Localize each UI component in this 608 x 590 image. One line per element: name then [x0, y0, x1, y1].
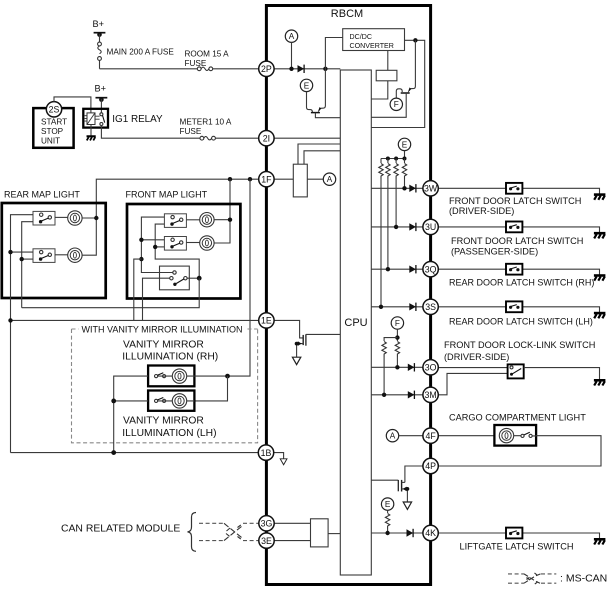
- front switch SW3: [164, 214, 186, 228]
- connector 3S: [423, 299, 438, 314]
- node A circle lower: [386, 430, 398, 442]
- resistor R7: [385, 510, 389, 533]
- MS-CAN label: [560, 573, 607, 585]
- dashed CAN wire 3G: [199, 522, 259, 524]
- ground 3U: [594, 233, 606, 238]
- wire 3U external: [438, 227, 599, 233]
- svg-text:REAR DOOR LATCH SWITCH (RH): REAR DOOR LATCH SWITCH (RH): [449, 278, 594, 288]
- front switch SW4: [164, 237, 186, 251]
- svg-text:4F: 4F: [425, 431, 436, 441]
- wire vanity RH to left chain: [114, 376, 148, 453]
- rear lamp L1: [68, 211, 82, 225]
- svg-text:3O: 3O: [425, 363, 437, 373]
- wire rear sw1 to lamp1: [55, 216, 68, 218]
- connector 1E: [259, 313, 274, 328]
- wire vanity right chain: [194, 374, 230, 401]
- ground arrow mosfet Q4: [403, 502, 411, 509]
- CAN interface box: [311, 519, 329, 547]
- diode 3M: [408, 391, 415, 399]
- ground arrow 1B: [280, 459, 287, 465]
- svg-text:(DRIVER-SIDE): (DRIVER-SIDE): [449, 206, 514, 216]
- rear switch SW1: [33, 211, 55, 225]
- wire 4F external: [438, 435, 494, 437]
- wire door switch right terminal: [187, 276, 202, 281]
- svg-text:FUSE: FUSE: [180, 127, 202, 136]
- svg-text:E: E: [304, 81, 310, 90]
- wire meter1 fuse to 2I: [215, 137, 258, 139]
- svg-text:ROOM 15 A: ROOM 15 A: [185, 50, 230, 59]
- wire room fuse to 2P: [213, 68, 259, 70]
- wire door switch mid terminal to 1E line: [143, 278, 170, 320]
- svg-text:3G: 3G: [261, 519, 273, 529]
- diode 3O: [408, 363, 415, 371]
- svg-text:CONVERTER: CONVERTER: [350, 42, 394, 50]
- svg-text:2S: 2S: [49, 104, 60, 114]
- diode D1 on 2P row: [298, 65, 305, 73]
- relay contact: [100, 113, 105, 126]
- FRONT MAP LIGHT box: [127, 204, 240, 299]
- node E circle lower: [381, 498, 393, 510]
- wire 1F distribution: [96, 177, 258, 218]
- wire vanity feed: [228, 179, 251, 376]
- resistor R2: [386, 159, 390, 270]
- resistor bus wire: [381, 157, 407, 161]
- diode 4K: [407, 529, 414, 537]
- twisted pair symbol: [224, 523, 243, 540]
- svg-text:4P: 4P: [425, 461, 436, 471]
- CARGO COMPARTMENT LIGHT label: [449, 413, 586, 423]
- cargo switch: [521, 432, 532, 437]
- wire 1E row: [8, 318, 258, 322]
- svg-text:1F: 1F: [261, 174, 272, 184]
- FRONT DOOR LATCH SWITCH (PASSENGER-SIDE) label: [451, 236, 583, 257]
- svg-text:CAN RELATED MODULE: CAN RELATED MODULE: [61, 524, 180, 535]
- ground 4K: [594, 539, 606, 544]
- fuse METER1 10 A: [180, 118, 232, 141]
- node F circle upper: [390, 98, 402, 110]
- wire CAN box to CPU: [328, 533, 340, 535]
- svg-text:1E: 1E: [261, 316, 272, 326]
- connector 3M: [423, 387, 438, 402]
- svg-text:1B: 1B: [261, 448, 272, 458]
- connector 3G: [259, 516, 274, 531]
- wire 1B ground stub: [274, 453, 284, 459]
- latch switch 3W: [506, 183, 522, 194]
- cargo light box: [494, 425, 536, 446]
- dashed CAN wire 3E: [199, 540, 259, 542]
- front lamp L4: [200, 236, 214, 250]
- wire 4K external: [438, 533, 599, 539]
- wire 3O external: [438, 367, 507, 369]
- wire 2S to IG1 relay coil: [54, 97, 91, 113]
- svg-text:E: E: [385, 500, 391, 509]
- VANITY MIRROR ILLUMINATION (RH) label: [122, 339, 218, 362]
- resistor R5: [382, 342, 386, 395]
- latch switch 3S: [506, 301, 522, 312]
- FRONT MAP LIGHT label: [126, 190, 208, 200]
- wire front lamps feed: [229, 179, 231, 220]
- svg-text:IG1 RELAY: IG1 RELAY: [112, 114, 163, 125]
- node 2S circle: [46, 102, 61, 117]
- wire rear sw2 to lamp2: [55, 254, 68, 256]
- ground 3Q: [594, 276, 606, 281]
- wire 3Q external: [438, 269, 599, 275]
- wire B+ feed to room fuse: [100, 68, 198, 70]
- front lamp L3: [200, 213, 214, 227]
- resistor R4: [402, 159, 406, 189]
- B+ terminal 1: [93, 19, 106, 37]
- wire up to DC/DC input: [325, 38, 342, 69]
- diode 3S: [409, 303, 416, 311]
- connector 4P: [423, 458, 438, 473]
- svg-text:: MS-CAN: : MS-CAN: [560, 573, 607, 585]
- svg-text:CPU: CPU: [344, 317, 367, 329]
- WITH VANITY MIRROR ILLUMINATION label: [82, 324, 243, 334]
- svg-text:ILLUMINATION (RH): ILLUMINATION (RH): [122, 352, 218, 363]
- svg-text:FRONT DOOR LATCH SWITCH: FRONT DOOR LATCH SWITCH: [449, 196, 581, 206]
- svg-text:UNIT: UNIT: [41, 137, 60, 146]
- cargo lamp: [499, 428, 513, 442]
- svg-text:3W: 3W: [424, 184, 438, 194]
- DC/DC converter U2: [343, 29, 405, 51]
- svg-text:B+: B+: [95, 84, 107, 94]
- wire 4K row: [371, 531, 423, 535]
- svg-text:LIFTGATE LATCH SWITCH: LIFTGATE LATCH SWITCH: [460, 541, 574, 551]
- wire vanity RH row: [158, 375, 195, 377]
- svg-text:A: A: [327, 175, 333, 184]
- wire cargo to 4P: [438, 436, 601, 466]
- svg-text:METER1 10 A: METER1 10 A: [180, 118, 232, 127]
- fuse MAIN 200 A: [98, 34, 175, 69]
- wire front sw3 bottom terminal V2: [155, 224, 199, 278]
- wire front sw4 to lamp4: [186, 242, 199, 244]
- svg-text:RBCM: RBCM: [331, 8, 363, 20]
- wire 2I row inside: [274, 137, 340, 139]
- latch switch 3U: [506, 222, 522, 233]
- MS-CAN legend dashed lines: [508, 574, 556, 583]
- svg-text:A: A: [289, 32, 295, 41]
- dashed option box: [72, 329, 258, 443]
- wire 3E to CAN box: [274, 540, 310, 542]
- latch switch 3Q: [506, 264, 522, 275]
- diode 3Q: [409, 265, 416, 273]
- wire rear sw1 bottom terminal: [22, 222, 33, 308]
- wire F to pullup resistors: [384, 329, 399, 341]
- svg-text:3M: 3M: [424, 390, 436, 400]
- wire front sw3 top terminal V1: [141, 217, 172, 272]
- wire relay to meter1 fuse: [101, 126, 200, 139]
- fuse ROOM 15 A: [185, 50, 230, 71]
- IG1 RELAY label: [112, 114, 163, 125]
- ground 3W: [594, 195, 606, 200]
- svg-text:CARGO COMPARTMENT LIGHT: CARGO COMPARTMENT LIGHT: [449, 413, 586, 423]
- vanity RH switch: [155, 373, 166, 378]
- wire rear sw1 top terminal: [11, 215, 34, 453]
- resistor R3: [394, 159, 398, 227]
- connector 2I: [259, 131, 274, 146]
- svg-text:4K: 4K: [425, 528, 436, 538]
- svg-text:VANITY MIRROR: VANITY MIRROR: [123, 416, 204, 427]
- svg-text:3U: 3U: [425, 222, 436, 232]
- FRONT DOOR LATCH SWITCH (DRIVER-SIDE) label: [449, 196, 581, 216]
- wire 3M row: [371, 393, 423, 397]
- mosfet Q4: [371, 480, 409, 502]
- wire vanity LH to left chain: [111, 399, 148, 404]
- wire door switch common down: [22, 278, 200, 308]
- relay IG1 box: [83, 109, 108, 128]
- wire 3S row: [371, 305, 423, 309]
- svg-text:REAR DOOR LATCH SWITCH (LH): REAR DOOR LATCH SWITCH (LH): [449, 316, 593, 326]
- REAR MAP LIGHT box: [2, 203, 106, 298]
- svg-text:2P: 2P: [261, 64, 272, 74]
- CPU label: [344, 317, 367, 329]
- svg-text:FRONT DOOR LATCH SWITCH: FRONT DOOR LATCH SWITCH: [451, 236, 583, 246]
- RBCM module box: [266, 6, 430, 585]
- vanity LH box: [148, 391, 194, 411]
- svg-text:E: E: [402, 140, 408, 149]
- wire front sw4 bottom terminal: [153, 245, 164, 249]
- svg-text:ILLUMINATION (LH): ILLUMINATION (LH): [122, 428, 216, 439]
- wire B+ into relay contact: [100, 99, 102, 113]
- B+ terminal 2: [95, 84, 108, 102]
- front door switch box: [160, 266, 190, 290]
- wire DC/DC output to top-right node: [371, 38, 424, 127]
- connector 3W: [423, 181, 438, 196]
- wires CPU to 1F resistor box: [298, 144, 340, 164]
- wire rear sw2 bottom terminal: [20, 257, 34, 261]
- wire 3W external: [438, 188, 599, 194]
- ground arrow mosfet Q3: [292, 357, 300, 364]
- node A circle mid: [323, 173, 335, 185]
- CPU box: [340, 70, 371, 575]
- LIFTGATE LATCH SWITCH label: [460, 541, 574, 551]
- vanity LH lamp: [172, 394, 186, 408]
- svg-text:MAIN 200 A FUSE: MAIN 200 A FUSE: [107, 48, 175, 57]
- svg-text:A: A: [390, 432, 396, 441]
- connector 2P: [259, 61, 274, 76]
- svg-text:FRONT MAP LIGHT: FRONT MAP LIGHT: [126, 190, 208, 200]
- svg-text:(DRIVER-SIDE): (DRIVER-SIDE): [444, 352, 509, 362]
- wire 4P to mosfet drain: [405, 466, 423, 482]
- svg-text:F: F: [394, 100, 399, 109]
- wire front lamps right chain: [214, 218, 232, 244]
- START STOP UNIT box: [33, 108, 73, 148]
- wire box to A: [307, 178, 323, 180]
- RBCM label: [331, 8, 363, 20]
- rear lamp L2: [68, 248, 82, 262]
- node F circle lower: [391, 317, 403, 329]
- relay coil ground: [87, 125, 96, 141]
- wire V1 branch to 1E line: [134, 257, 144, 321]
- latch switch 4K: [506, 528, 522, 539]
- MS-CAN twisted pair: [524, 573, 541, 584]
- ground 3S: [594, 313, 606, 318]
- vanity RH lamp: [172, 369, 186, 383]
- diode 3W: [409, 184, 416, 192]
- wire 3Q row: [371, 267, 423, 271]
- connector 1F: [259, 172, 274, 187]
- svg-text:DC/DC: DC/DC: [350, 33, 372, 41]
- svg-text:3S: 3S: [425, 302, 436, 312]
- junction on 2P row: [323, 67, 327, 71]
- resistor box on 1F line: [293, 164, 307, 197]
- svg-text:3Q: 3Q: [425, 264, 437, 274]
- wire A to 2P row: [289, 42, 293, 71]
- svg-text:REAR MAP LIGHT: REAR MAP LIGHT: [4, 190, 80, 200]
- svg-text:WITH VANITY MIRROR ILLUMINATIO: WITH VANITY MIRROR ILLUMINATION: [82, 324, 243, 334]
- svg-text:START: START: [41, 118, 67, 127]
- node E circle resistor bank: [398, 138, 410, 150]
- svg-text:VANITY MIRROR: VANITY MIRROR: [123, 339, 204, 350]
- wire lock-link to ground: [524, 368, 600, 380]
- svg-text:(PASSENGER-SIDE): (PASSENGER-SIDE): [451, 247, 538, 257]
- wire E to resistor bus: [404, 151, 406, 159]
- wire 3W row: [371, 186, 423, 190]
- lock-link switch box: [508, 364, 524, 378]
- svg-text:3E: 3E: [261, 536, 272, 546]
- brace: [188, 513, 197, 552]
- connector 4K: [423, 525, 438, 540]
- svg-text:B+: B+: [93, 19, 105, 29]
- connector 4F: [423, 428, 438, 443]
- relay coil: [85, 113, 100, 125]
- svg-text:FUSE: FUSE: [185, 59, 207, 68]
- wire 1B row: [11, 450, 259, 455]
- diode 3U: [409, 223, 416, 231]
- REAR MAP LIGHT label: [4, 190, 80, 200]
- vanity RH box: [148, 366, 194, 387]
- connector 3U: [423, 219, 438, 234]
- wire vanity LH row: [158, 400, 195, 402]
- connector 3O: [423, 360, 438, 375]
- svg-text:STOP: STOP: [41, 127, 64, 136]
- wire 3O row: [371, 365, 423, 369]
- FRONT DOOR LOCK-LINK SWITCH (DRIVER-SIDE) label: [444, 340, 595, 362]
- REAR DOOR LATCH SWITCH (RH) label: [449, 278, 594, 288]
- wire front sw4 top terminal: [139, 238, 164, 242]
- wire 3S external: [438, 307, 599, 313]
- resistor R6: [395, 342, 399, 368]
- svg-text:FRONT DOOR LOCK-LINK SWITCH: FRONT DOOR LOCK-LINK SWITCH: [444, 340, 595, 350]
- node A circle top: [285, 30, 297, 42]
- wire 3M external: [438, 373, 507, 394]
- wire rear sw2 top terminal: [8, 250, 33, 254]
- wire 3U row: [371, 225, 423, 229]
- wire 2P row inside RBCM: [274, 68, 340, 70]
- svg-text:2I: 2I: [263, 133, 270, 143]
- wire 1F to box: [274, 178, 293, 180]
- mosfet Q3: [295, 334, 341, 357]
- wire 3G to CAN box: [274, 522, 310, 524]
- REAR DOOR LATCH SWITCH (LH) label: [449, 316, 593, 326]
- connector 1B: [258, 445, 273, 460]
- rear switch SW2: [33, 249, 55, 263]
- connector 3E: [259, 533, 274, 548]
- wire 1E to mosfet Q3: [274, 320, 303, 338]
- regulator box below DC/DC: [371, 51, 397, 100]
- CAN RELATED MODULE label: [61, 524, 180, 535]
- transistor Q2: [371, 40, 415, 117]
- wire front sw3 to lamp3: [186, 219, 199, 221]
- node E circle upper: [300, 79, 312, 91]
- vanity LH switch: [155, 398, 166, 403]
- wire A to 4F: [399, 435, 423, 437]
- ground lock-link: [594, 380, 606, 385]
- wire rear lamps right chain: [82, 216, 98, 255]
- VANITY MIRROR ILLUMINATION (LH) label: [122, 416, 216, 439]
- connector 3Q: [423, 262, 438, 277]
- svg-text:F: F: [395, 319, 400, 328]
- resistor R1: [379, 159, 383, 307]
- transistor Q1: [307, 69, 341, 118]
